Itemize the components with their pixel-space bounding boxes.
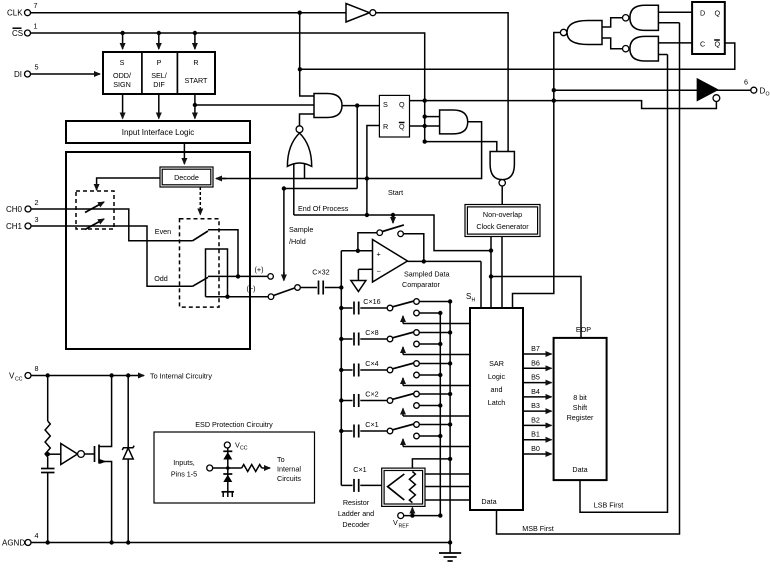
svg-text:R: R bbox=[193, 58, 198, 67]
svg-text:Data: Data bbox=[572, 465, 587, 474]
svg-text:Inputs,: Inputs, bbox=[173, 458, 195, 467]
svg-text:EOP: EOP bbox=[576, 325, 591, 334]
svg-text:C: C bbox=[700, 40, 705, 49]
svg-text:7: 7 bbox=[34, 1, 38, 10]
svg-text:O: O bbox=[766, 92, 770, 98]
svg-text:SEL/: SEL/ bbox=[151, 71, 167, 80]
svg-text:C×1: C×1 bbox=[353, 465, 366, 474]
svg-text:CC: CC bbox=[15, 377, 23, 383]
svg-text:Internal: Internal bbox=[277, 465, 301, 474]
svg-text:/Hold: /Hold bbox=[289, 237, 306, 246]
svg-text:C×16: C×16 bbox=[363, 297, 380, 306]
svg-text:MSB First: MSB First bbox=[522, 524, 554, 533]
svg-text:5: 5 bbox=[35, 63, 39, 72]
svg-text:Data: Data bbox=[481, 497, 496, 506]
svg-text:8: 8 bbox=[35, 364, 39, 373]
svg-text:H: H bbox=[472, 298, 476, 304]
svg-text:End Of Process: End Of Process bbox=[298, 204, 349, 213]
svg-text:8 bit: 8 bit bbox=[573, 393, 587, 402]
svg-text:Q: Q bbox=[715, 40, 721, 49]
svg-text:Q: Q bbox=[399, 122, 405, 131]
svg-text:ODD/: ODD/ bbox=[113, 71, 131, 80]
svg-text:V: V bbox=[393, 518, 398, 527]
svg-text:DI: DI bbox=[14, 70, 22, 79]
svg-text:SIGN: SIGN bbox=[113, 80, 131, 89]
svg-text:Circuits: Circuits bbox=[277, 474, 301, 483]
svg-text:REF: REF bbox=[399, 524, 409, 530]
svg-text:S: S bbox=[120, 58, 125, 67]
svg-text:Logic: Logic bbox=[488, 372, 506, 381]
svg-text:Pins 1-5: Pins 1-5 bbox=[171, 470, 197, 479]
svg-text:B5: B5 bbox=[531, 373, 540, 382]
svg-text:Even: Even bbox=[155, 227, 171, 236]
svg-text:Ladder and: Ladder and bbox=[338, 509, 374, 518]
svg-text:Shift: Shift bbox=[573, 403, 587, 412]
svg-text:B3: B3 bbox=[531, 401, 540, 410]
svg-text:B6: B6 bbox=[531, 358, 540, 367]
svg-text:C×2: C×2 bbox=[365, 390, 378, 399]
svg-text:Decode: Decode bbox=[174, 173, 199, 182]
svg-text:B0: B0 bbox=[531, 444, 540, 453]
svg-text:Latch: Latch bbox=[488, 398, 506, 407]
svg-text:AGND: AGND bbox=[2, 539, 25, 548]
svg-text:C×1: C×1 bbox=[365, 420, 378, 429]
svg-text:B1: B1 bbox=[531, 430, 540, 439]
svg-text:Clock Generator: Clock Generator bbox=[476, 222, 529, 231]
svg-text:B2: B2 bbox=[531, 415, 540, 424]
svg-text:SAR: SAR bbox=[489, 359, 504, 368]
svg-text:Non-overlap: Non-overlap bbox=[483, 210, 522, 219]
svg-text:Q: Q bbox=[399, 100, 405, 109]
svg-text:Comparator: Comparator bbox=[402, 280, 441, 289]
svg-text:Start: Start bbox=[388, 188, 403, 197]
svg-text:C×32: C×32 bbox=[312, 268, 329, 277]
svg-text:B7: B7 bbox=[531, 344, 540, 353]
svg-text:B4: B4 bbox=[531, 387, 540, 396]
svg-text:Register: Register bbox=[567, 413, 594, 422]
svg-text:(−): (−) bbox=[247, 284, 256, 293]
svg-text:C×8: C×8 bbox=[365, 328, 378, 337]
svg-text:CH1: CH1 bbox=[6, 222, 23, 231]
svg-text:3: 3 bbox=[35, 215, 39, 224]
svg-text:LSB First: LSB First bbox=[594, 501, 624, 510]
svg-text:Decoder: Decoder bbox=[342, 520, 370, 529]
svg-text:CLK: CLK bbox=[7, 8, 23, 17]
svg-text:S: S bbox=[383, 100, 388, 109]
svg-text:4: 4 bbox=[35, 531, 39, 540]
svg-text:P: P bbox=[157, 58, 162, 67]
svg-text:−: − bbox=[377, 267, 381, 276]
svg-text:D: D bbox=[700, 9, 705, 18]
svg-text:Input Interface Logic: Input Interface Logic bbox=[122, 128, 195, 137]
svg-text:C×4: C×4 bbox=[365, 359, 378, 368]
svg-text:To Internal Circuitry: To Internal Circuitry bbox=[150, 372, 212, 381]
svg-text:+: + bbox=[377, 250, 381, 259]
svg-text:6: 6 bbox=[744, 78, 748, 87]
svg-text:ESD Protection Circuitry: ESD Protection Circuitry bbox=[195, 420, 273, 429]
svg-text:(+): (+) bbox=[255, 265, 264, 274]
svg-text:To: To bbox=[277, 455, 285, 464]
svg-text:Resistor: Resistor bbox=[343, 498, 370, 507]
svg-text:2: 2 bbox=[35, 198, 39, 207]
svg-text:1: 1 bbox=[34, 22, 38, 31]
svg-text:Sampled Data: Sampled Data bbox=[404, 270, 450, 279]
svg-text:Odd: Odd bbox=[154, 274, 168, 283]
svg-text:and: and bbox=[491, 385, 503, 394]
svg-text:Sample: Sample bbox=[289, 225, 313, 234]
svg-text:Q: Q bbox=[715, 9, 721, 18]
svg-text:CC: CC bbox=[240, 446, 248, 452]
svg-text:START: START bbox=[185, 76, 209, 85]
svg-text:CS: CS bbox=[12, 29, 23, 38]
svg-text:R: R bbox=[383, 122, 388, 131]
svg-text:DIF: DIF bbox=[153, 80, 165, 89]
svg-text:CH0: CH0 bbox=[6, 205, 23, 214]
